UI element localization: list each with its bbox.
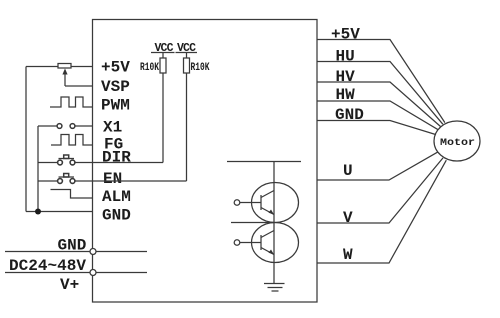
controller box U1 outline (93, 20, 318, 303)
svg-text:W: W (343, 246, 353, 264)
svg-text:HV: HV (336, 68, 356, 86)
FG output waveform (51, 135, 93, 146)
ground rail wire (x=38) (37, 126, 39, 212)
transistor Q2 (234, 223, 298, 263)
junction dot (35, 209, 41, 215)
svg-text:PWM: PWM (101, 97, 130, 115)
supply wire GND (5, 251, 147, 253)
potentiometer VR1 (58, 64, 71, 87)
PWM input waveform (50, 97, 93, 107)
svg-text:GND: GND (102, 207, 131, 225)
collector bus wire (227, 161, 301, 163)
svg-text:HU: HU (336, 48, 355, 66)
wire mid tap (231, 222, 274, 224)
pushbutton S3 on EN (38, 174, 75, 184)
svg-text:VSP: VSP (101, 78, 130, 96)
svg-text:X1: X1 (103, 119, 122, 137)
wire HW to motor (317, 101, 438, 130)
wire U to motor (317, 152, 438, 180)
wire pot left to ground rail (26, 66, 58, 68)
wire transistor chain vertical (273, 162, 275, 284)
resistor R10K pull-up on EN (184, 58, 210, 74)
svg-text:Motor: Motor (440, 138, 475, 149)
transistor Q1 (234, 183, 298, 223)
ALM output wire step (51, 190, 93, 199)
ground rail wire left (x=26) (25, 67, 27, 212)
svg-text:+5V: +5V (331, 26, 360, 44)
wire GND row to pin (26, 211, 93, 213)
svg-text:R10K: R10K (140, 62, 159, 74)
svg-text:ALM: ALM (102, 188, 131, 206)
wire W to motor (317, 160, 446, 263)
motor M1 (434, 121, 480, 161)
wire HV to motor (317, 82, 441, 127)
svg-text:DIR: DIR (102, 149, 131, 167)
resistor R10K pull-up on DIR (140, 58, 166, 74)
terminal pin GND (90, 249, 96, 255)
power symbol VCC 2 (176, 42, 198, 58)
ground symbol (264, 284, 285, 292)
pushbutton S2 on DIR (38, 155, 75, 165)
switch S1 on X1 (38, 124, 93, 129)
wire wiper to VSP pin (65, 85, 93, 87)
power symbol VCC 1 (151, 42, 175, 58)
wire R1 to DIR net (162, 73, 164, 163)
wire +5V to motor (317, 40, 445, 123)
svg-text:+5V: +5V (101, 59, 130, 77)
supply wire V+ (5, 272, 147, 274)
svg-text:V+: V+ (60, 276, 79, 294)
wire R2 to EN net (186, 73, 188, 181)
wire DIR row to R1 (75, 162, 163, 164)
svg-text:GND: GND (335, 106, 364, 124)
svg-text:U: U (343, 162, 353, 180)
terminal pin V+ (90, 270, 96, 276)
wire EN row to R2 (75, 180, 186, 182)
wire V to motor (317, 158, 443, 223)
svg-text:V: V (343, 209, 353, 227)
wire pot right to +5V pin (71, 66, 93, 68)
wire HU to motor (317, 62, 443, 125)
wire GND to motor (317, 121, 436, 135)
svg-text:R10K: R10K (191, 62, 210, 74)
svg-text:EN: EN (103, 170, 122, 188)
